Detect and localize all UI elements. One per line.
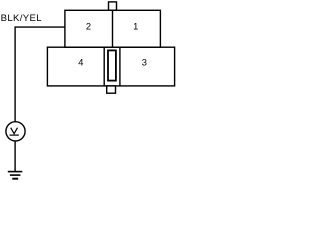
svg-text:3: 3 [142,58,147,68]
slot key rect [108,50,116,80]
svg-text:4: 4 [78,58,83,68]
divider pin1/pin2 [112,10,114,47]
ground [8,171,22,173]
connector bottom tab [107,86,116,93]
connector bottom row [47,47,174,86]
svg-text:1: 1 [133,22,138,32]
wire [15,27,65,122]
slot left wall [103,47,105,86]
svg-text:2: 2 [86,22,91,32]
connector top row [65,10,160,47]
wire voltmeter to ground [14,141,16,172]
svg-text:BLK/YEL: BLK/YEL [1,13,43,24]
connector top tab [109,2,117,10]
slot right wall [119,47,121,86]
voltmeter V1 [6,122,25,141]
